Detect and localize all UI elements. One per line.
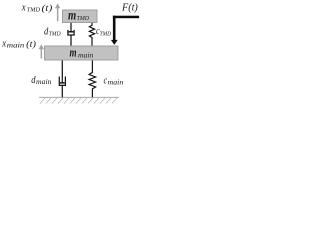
svg-text:main: main [7,42,25,50]
svg-text:TMD: TMD [49,32,62,38]
svg-text:main: main [78,52,94,60]
svg-text:TMD: TMD [27,7,41,14]
svg-text:x: x [21,2,26,14]
svg-text:main: main [36,78,52,86]
svg-text:TMD: TMD [100,31,112,37]
svg-text:F(t): F(t) [121,2,138,13]
svg-text:main: main [108,78,124,86]
svg-text:m: m [70,46,77,60]
svg-text:(t): (t) [42,3,53,13]
svg-text:(t): (t) [26,39,36,49]
svg-text:m: m [68,7,76,23]
svg-text:d: d [31,74,35,86]
svg-text:TMD: TMD [77,15,90,22]
